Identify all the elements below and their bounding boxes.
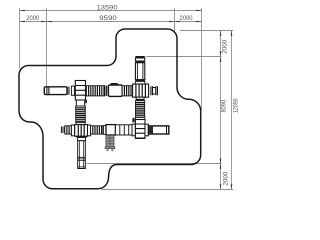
post A stub dark band below junction: [76, 136, 87, 138]
arrows dim 13590: [20, 10, 202, 12]
post A bottom cap: [78, 166, 86, 168]
post B stack at lower junction: [135, 120, 145, 139]
upper beam ribbed tube 2: [122, 86, 132, 96]
post A right clamp tab: [85, 100, 87, 104]
extension line x=174.8: [174, 8, 176, 31]
sleeve top clamp band: [111, 83, 118, 85]
svg-text:2000: 2000: [180, 15, 194, 22]
dimension chain line 2000/9590/2000: [20, 21, 202, 23]
arrows vertical overall 12090: [231, 31, 233, 190]
svg-text:8090: 8090: [221, 99, 228, 112]
post B ribbed section: [136, 101, 145, 118]
svg-text:2000: 2000: [222, 39, 229, 53]
lower beam ring: [103, 126, 106, 135]
post A lower tube: [78, 141, 86, 169]
extension line top-right horizontal y=29.8: [180, 30, 233, 32]
upper beam rings: [105, 86, 108, 97]
lower beam sleeve: [106, 125, 115, 135]
post B left bracket tab: [132, 118, 134, 123]
post A collar at upper beam: [75, 81, 85, 101]
post A white band above lower junction: [76, 123, 85, 125]
svg-text:12090: 12090: [232, 98, 239, 113]
lower beam slat tube: [115, 125, 132, 135]
post B white band above lower junction: [136, 118, 145, 120]
svg-text:13590: 13590: [97, 5, 119, 12]
post B top cap: [135, 56, 144, 58]
lower junction flange right of post A: [88, 125, 91, 136]
upper beam sleeve: [108, 85, 122, 96]
lower beam ribbed tube left: [65, 126, 72, 134]
hanging seat block: [106, 135, 114, 146]
extension line bottom y=189.6: [101, 189, 233, 191]
seat block feet: [107, 149, 109, 151]
svg-text:2000: 2000: [223, 171, 230, 185]
extension line left x=19.4: [19, 8, 21, 69]
upper beam ribbed tube 1: [86, 86, 104, 96]
dimension line 13590 overall: [20, 10, 202, 12]
post B cap white band: [135, 58, 144, 61]
extension line right x=201.5: [201, 8, 203, 110]
post B skirt below cross: [136, 97, 144, 100]
extension line y=163.4 from bulge bottom: [87, 163, 222, 165]
dimension line vertical chain x=220.5: [220, 31, 222, 190]
upper beam right spool: [151, 86, 158, 95]
extension line y=56.4 from post top: [146, 56, 222, 58]
upper beam cross slats at post B: [133, 84, 149, 97]
post A stub below lower junction: [78, 138, 86, 141]
lower beam left end cap: [61, 126, 64, 133]
lower junction flange right of post B: [145, 124, 148, 136]
svg-text:2000: 2000: [26, 15, 39, 22]
post B dark band above cross: [135, 80, 145, 82]
upper beam left tube cap lines: [47, 87, 69, 95]
lower beam right tube: [148, 126, 168, 134]
post A lower tube band: [78, 157, 86, 160]
post B white neck above cross: [135, 81, 145, 84]
extension line x=46.2: [46, 8, 48, 90]
post A ribbed section: [76, 106, 86, 123]
post B dark ring band: [135, 61, 144, 63]
post A sub-box below collar: [76, 100, 84, 106]
safety area boundary outline: [19, 29, 201, 189]
seat block bottom bar: [105, 147, 115, 149]
post B upper tube: [135, 63, 144, 80]
lower junction slats at post A: [75, 125, 88, 137]
upper beam left plain tube: [44, 87, 67, 95]
arrows chain dim 2000/9590/2000: [20, 21, 202, 23]
lower beam ribbed tube right of post A: [91, 126, 103, 134]
upper beam left ring: [71, 86, 74, 95]
svg-text:9590: 9590: [99, 15, 117, 22]
lower junction flange left of post B: [132, 124, 135, 136]
dimension line vertical overall x=232: [231, 31, 233, 190]
arrows vertical chain 2000/8090/2000: [220, 31, 222, 190]
lower junction flange left of post A: [71, 125, 74, 136]
